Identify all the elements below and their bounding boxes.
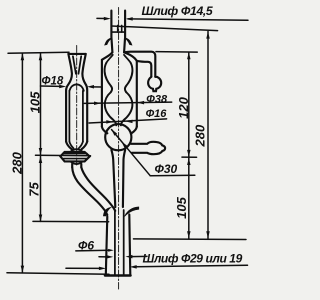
F30 leader — [112, 130, 151, 176]
arrowheads F18 — [59, 85, 66, 89]
condenser neck inner bore — [112, 25, 125, 32]
disc top dome — [70, 149, 82, 152]
arrowheads F16 — [106, 120, 113, 124]
F30 underline — [150, 174, 195, 176]
svg-text:Ф16: Ф16 — [146, 108, 168, 120]
dim line 120+105 right — [188, 52, 190, 238]
side arm top wall — [124, 52, 155, 77]
left tube inner cone lines — [73, 56, 81, 74]
disc bottom dome — [70, 162, 82, 165]
ext line mid left (disc) — [36, 154, 91, 156]
stem taper right — [123, 150, 125, 207]
disc inner lines — [63, 154, 87, 159]
junction hook right — [125, 207, 139, 217]
F29 left arrow line — [66, 267, 100, 269]
dim line 105+75 left — [40, 53, 42, 221]
ext line bottom left — [7, 273, 109, 275]
left tube bottom taper outer — [66, 142, 87, 150]
bend tube outer wall — [72, 167, 107, 215]
below-disc neck — [72, 164, 81, 167]
side arm bottom wall — [137, 61, 152, 77]
ext line top left — [8, 52, 69, 53]
dim line 280 left — [21, 53, 23, 272]
svg-text:75: 75 — [27, 182, 42, 197]
arrowheads 280 right dim — [206, 32, 210, 39]
svg-text:120: 120 — [176, 96, 191, 118]
bulb 1 right profile — [125, 63, 133, 92]
condenser centerline — [118, 8, 120, 290]
arrowheads 280 left dim — [21, 53, 25, 60]
arrowheads F6 — [108, 249, 114, 252]
ext line bottom of 75 — [33, 220, 109, 222]
F29 underline — [136, 265, 248, 267]
condenser left shoulder + jacket left wall — [102, 52, 113, 126]
dim line 280 right — [207, 31, 209, 238]
arrowheads F30 leader — [111, 129, 117, 135]
svg-text:280: 280 — [193, 124, 208, 147]
svg-text:Ф6: Ф6 — [78, 238, 94, 252]
left tube centerline — [76, 46, 78, 168]
neck joint barb left — [105, 38, 112, 45]
F6 underline — [76, 249, 109, 252]
neck cone below barbs — [112, 39, 126, 53]
svg-text:Ф30: Ф30 — [155, 162, 178, 176]
arrowheads F29 — [99, 267, 106, 271]
ground disc — [60, 152, 89, 162]
left tube bottom taper inner — [69, 142, 83, 149]
left tube top rim — [68, 53, 85, 55]
arrowheads 120/105 right dim — [187, 52, 191, 59]
ext line bottom right — [134, 238, 247, 241]
F18 leader right — [92, 86, 102, 88]
ext line from neck to right dims — [112, 26, 218, 31]
stem taper left — [111, 150, 115, 207]
bulb 2 left profile — [105, 92, 117, 125]
bulb 2 right profile — [121, 92, 132, 125]
ext line mid right — [182, 156, 197, 158]
junction hook left — [103, 208, 110, 216]
neck joint barb right — [125, 38, 132, 45]
arrowheads 105/75 left dim — [39, 53, 43, 60]
left tube inner bell arch — [69, 84, 83, 90]
condenser left shoulder inner — [106, 55, 112, 63]
F6 arrow lines — [99, 255, 147, 258]
svg-text:105: 105 — [174, 196, 189, 218]
left tube outer wall right — [82, 54, 87, 142]
left tube inner walls — [69, 91, 83, 142]
F14.5 arrow line left — [97, 17, 105, 19]
F18 leader left — [41, 85, 61, 87]
drip bulb — [148, 77, 161, 91]
bend tube inner wall — [81, 167, 115, 211]
svg-text:Ф38: Ф38 — [146, 93, 168, 105]
ext line top of 120 — [156, 51, 197, 54]
F16 dim line — [89, 119, 167, 123]
sealed side tube — [131, 142, 165, 154]
inner tube walls F6 — [115, 210, 124, 275]
cone outer walls — [106, 215, 131, 276]
arrowheads F38 — [94, 101, 101, 105]
condenser neck walls — [111, 11, 125, 38]
bulb 1 left profile — [105, 63, 113, 92]
F14.5 underline — [128, 19, 248, 20]
svg-text:Ф18: Ф18 — [42, 76, 64, 88]
svg-text:280: 280 — [10, 151, 25, 174]
cone bottom edge — [105, 274, 131, 276]
right shoulder under arm + jacket right wall — [124, 52, 137, 126]
right shoulder inner — [124, 55, 131, 63]
svg-text:105: 105 — [28, 91, 43, 113]
jacket bottom closure right — [131, 127, 136, 134]
svg-text:Шлиф Ф29 или 19: Шлиф Ф29 или 19 — [143, 251, 243, 265]
F38 dim line — [84, 102, 172, 103]
jacket bottom closure left — [102, 127, 107, 134]
left tube outer wall left — [66, 54, 72, 142]
arrowheads F14.5 — [104, 17, 111, 21]
svg-text:Шлиф Ф14,5: Шлиф Ф14,5 — [142, 4, 213, 18]
sphere F30 — [105, 124, 131, 150]
